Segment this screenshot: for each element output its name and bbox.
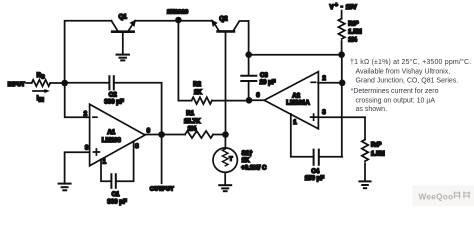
wire A1 pin3 to ground: [65, 152, 90, 182]
svg-text:15V: 15V: [346, 4, 358, 11]
node R1/S1/Q2 base: [222, 131, 229, 138]
svg-text:1.5M: 1.5M: [348, 28, 362, 35]
node A1 output: [158, 131, 165, 138]
svg-text:-: -: [341, 4, 343, 11]
watermark WeeQoo: [413, 186, 474, 207]
svg-text:R2: R2: [193, 81, 201, 88]
node Q2 collector: [245, 51, 252, 58]
ground (R4): [359, 181, 370, 188]
svg-text:Q2: Q2: [219, 16, 228, 23]
label S1 1K +0.3%/C: [241, 150, 267, 171]
svg-text:1K: 1K: [242, 157, 250, 164]
svg-text:+0.3%/ C: +0.3%/ C: [241, 164, 267, 171]
label Iin: [37, 95, 44, 104]
pin 3 plus A2: [311, 109, 327, 120]
pin 6 label A2: [256, 92, 260, 99]
resistor R3: [338, 11, 344, 55]
svg-text:LM101A: LM101A: [286, 100, 310, 107]
svg-text:1%: 1%: [348, 36, 357, 43]
pin 8 label A1: [135, 143, 139, 150]
pin 2 minus A1: [84, 110, 97, 117]
pin 3 plus A1: [85, 144, 99, 155]
svg-text:Q1: Q1: [119, 14, 128, 21]
label C1 300 pF: [107, 191, 127, 206]
svg-text:†1 kΩ (±1%) at 25°C, +3500 ppm: †1 kΩ (±1%) at 25°C, +3500 ppm/°C.: [350, 58, 471, 66]
svg-text:C2: C2: [109, 92, 117, 99]
wire output drop: [161, 135, 163, 184]
label INPUT: [8, 82, 25, 88]
svg-text:150 pF: 150 pF: [305, 175, 325, 182]
resistor R4: [362, 117, 368, 180]
label Rs: [37, 72, 45, 81]
svg-text:C4: C4: [311, 168, 319, 175]
svg-text:OUTPUT: OUTPUT: [150, 186, 174, 192]
label OUTPUT: [150, 186, 174, 192]
wire A1 pin1 down to C1: [101, 159, 111, 181]
wire Q2 collector to R3 bottom: [249, 54, 342, 56]
wire R2 to C3 node: [212, 100, 249, 102]
wire A2 pin1 down: [291, 114, 314, 157]
svg-text:Available from Vishay Ultronix: Available from Vishay Ultronix,: [356, 68, 451, 75]
ground (S1): [219, 185, 231, 191]
svg-text:Grand Junction, CO, Q81 Series: Grand Junction, CO, Q81 Series.: [356, 78, 459, 85]
label Q1: [119, 14, 128, 21]
wire 2N2920 node down to R2: [178, 21, 191, 101]
resistor R1: [185, 131, 213, 138]
label V+ = 15V: [330, 2, 358, 10]
svg-text:*Determines current for zero: *Determines current for zero: [351, 88, 439, 95]
node 2N2920: [175, 17, 182, 24]
label R1 15.7K 1%: [184, 110, 201, 133]
capacitor C3: [241, 55, 256, 101]
pin 6 label A1: [147, 127, 151, 134]
pin 1 label A2: [293, 119, 297, 126]
svg-text:LM108: LM108: [102, 137, 122, 144]
transistor Q1: [111, 21, 135, 54]
label T inside S1: [229, 156, 233, 162]
node A2 minus input: [339, 80, 346, 87]
label Q2: [219, 16, 228, 23]
wire A1 output to R1: [145, 134, 185, 136]
svg-text:A1: A1: [107, 129, 115, 136]
svg-text:3: 3: [322, 109, 326, 116]
svg-text:6: 6: [256, 92, 260, 99]
wire node to A2 output: [249, 99, 264, 101]
label R4* 1.5M: [371, 142, 385, 158]
label R3* 1.5M 1%: [348, 20, 362, 43]
svg-text:1.5M: 1.5M: [371, 150, 385, 157]
current arrow Iin: [33, 89, 50, 93]
label R2 2K: [193, 81, 202, 96]
svg-text:300 pF: 300 pF: [104, 99, 124, 106]
node R2/C3/A2: [246, 97, 253, 104]
svg-text:+: +: [335, 2, 338, 8]
svg-text:R3*: R3*: [348, 20, 359, 27]
wire A2 pin3 to R4: [318, 116, 365, 118]
svg-text:1%: 1%: [188, 126, 197, 133]
wire R1 to S1 node: [213, 134, 225, 136]
wire Q2 base down to node: [225, 33, 227, 135]
wire input-node to top rail corner: [65, 21, 112, 83]
svg-text:C1: C1: [112, 191, 120, 198]
label C3 20 pF: [260, 72, 276, 86]
wire top rail Q1 to Q2: [135, 20, 212, 22]
node R3 bottom: [338, 51, 345, 58]
svg-text:crossing on output: 10 µA: crossing on output: 10 µA: [356, 97, 436, 104]
svg-text:15.7K: 15.7K: [184, 118, 201, 125]
svg-text:as shown.: as shown.: [356, 106, 388, 113]
svg-text:2K: 2K: [194, 89, 202, 96]
svg-text:20 pF: 20 pF: [260, 79, 276, 86]
label C2 300 pF: [104, 92, 124, 106]
ground (A1 pin3): [59, 184, 71, 191]
svg-text:2N2920: 2N2920: [167, 10, 188, 16]
op-amp A1 LM108: [90, 104, 145, 166]
capacitor C1: [111, 174, 115, 188]
wire node to A1 pin2: [65, 83, 90, 117]
label A2 LM101A: [286, 92, 310, 106]
transistor Q2: [212, 21, 249, 55]
svg-text:R1: R1: [186, 110, 194, 117]
sensor S1 thermistor: [213, 135, 237, 185]
wire R3 node down to minus input and C4: [341, 55, 343, 157]
svg-text:300 pF: 300 pF: [107, 198, 127, 205]
wire C2 to output column: [114, 83, 162, 135]
label 2N2920: [167, 10, 188, 16]
resistor R2: [192, 97, 212, 104]
wire feedback node to C2: [65, 82, 110, 84]
svg-text:R4*: R4*: [371, 142, 382, 149]
label C4 150 pF: [305, 168, 325, 182]
pin 2 minus A2: [311, 75, 326, 83]
op-amp A2 LM101A: [264, 72, 318, 129]
pin 1 label A1: [103, 159, 107, 166]
wire A2 pin2 to R3 node: [318, 82, 342, 84]
svg-text:WeeQoo: WeeQoo: [419, 193, 454, 202]
ground (Q1 base): [117, 55, 130, 61]
resistor Rs: [27, 80, 65, 86]
label A1 LM108: [102, 129, 122, 144]
capacitor C2: [109, 76, 113, 89]
node input: [61, 80, 68, 87]
wire C1 to A1 pin8: [116, 141, 134, 181]
note text block: [350, 58, 471, 113]
svg-text:A2: A2: [292, 92, 300, 99]
capacitor C4: [314, 150, 343, 165]
svg-text:S1†: S1†: [242, 150, 253, 157]
svg-text:INPUT: INPUT: [8, 82, 25, 88]
